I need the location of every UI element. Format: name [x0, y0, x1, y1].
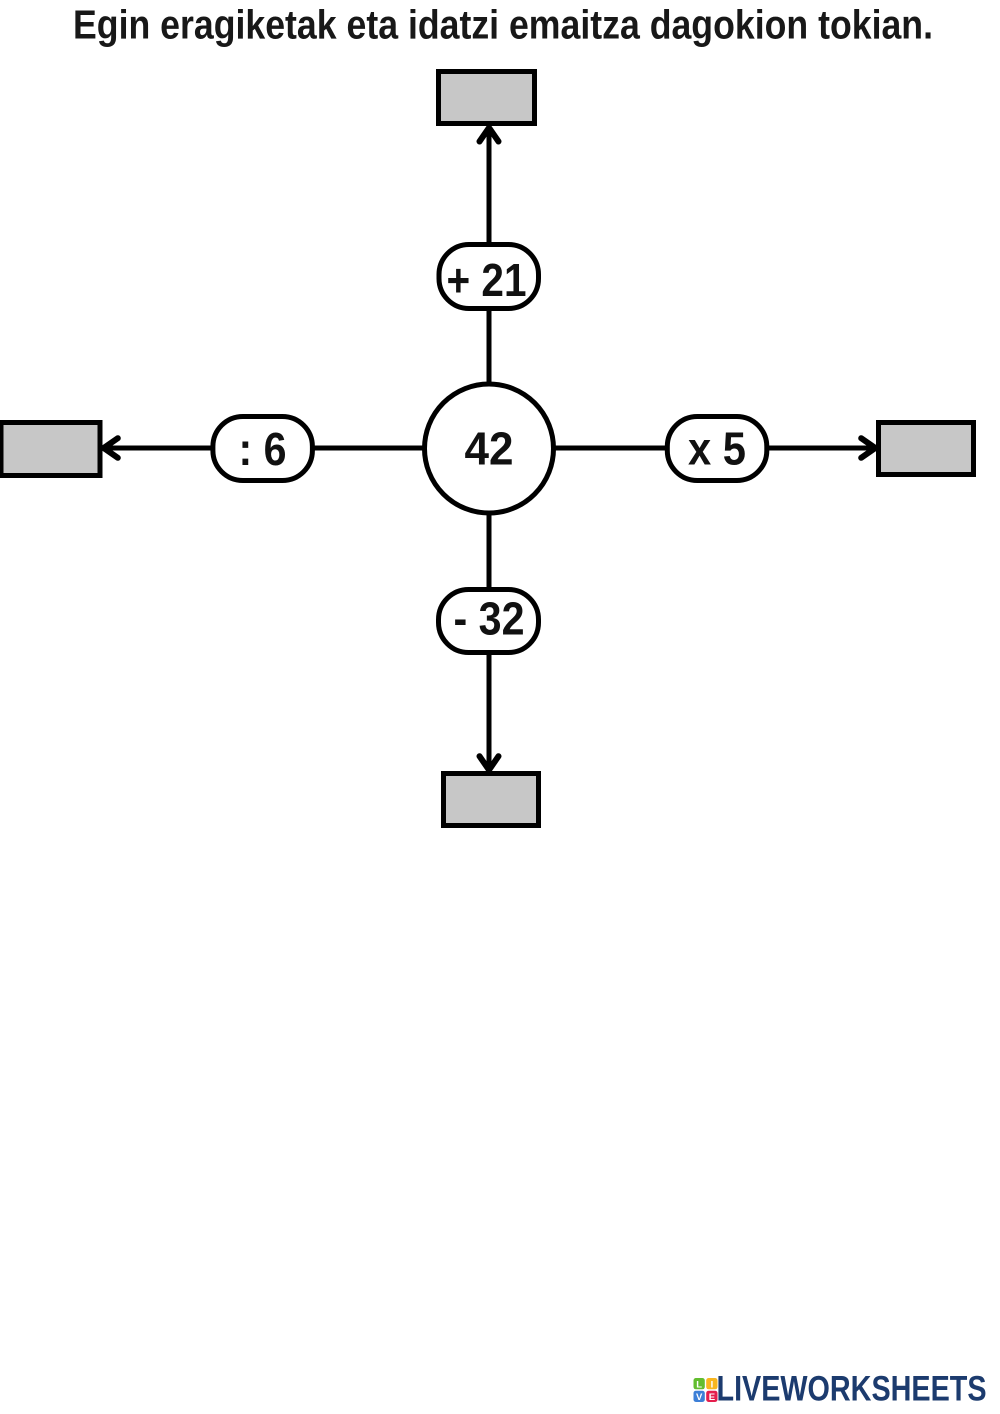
right result box: [879, 423, 974, 475]
operation pill -32: [439, 590, 539, 653]
arrowhead left: [104, 438, 118, 458]
arrowhead right: [861, 438, 875, 458]
svg-text:Egin eragiketak eta idatzi ema: Egin eragiketak eta idatzi emaitza dagok…: [73, 2, 933, 48]
operation pill :6: [213, 417, 313, 481]
wire right: circle to right arrow: [489, 446, 870, 451]
operation pill +21: [439, 245, 539, 309]
svg-text:V: V: [696, 1392, 703, 1403]
wire down: circle to bottom arrow: [487, 448, 492, 766]
wire left: circle to left arrow: [108, 446, 489, 451]
top result box: [439, 72, 535, 124]
svg-text:42: 42: [465, 423, 514, 475]
central circle 42: [425, 384, 554, 513]
svg-text:+ 21: + 21: [447, 254, 527, 306]
svg-text:x 5: x 5: [688, 423, 746, 475]
svg-text:L: L: [696, 1379, 702, 1390]
wire up: circle to top arrow: [487, 131, 492, 448]
svg-text:- 32: - 32: [454, 593, 525, 645]
svg-text:I: I: [711, 1379, 714, 1390]
svg-text:: 6: : 6: [239, 423, 287, 475]
arrowhead up: [480, 128, 499, 142]
liveworksheets logo icon: 2x2 colored squares: [694, 1378, 718, 1403]
left result box: [1, 423, 100, 476]
bottom result box: [444, 774, 539, 826]
operation pill x5: [667, 417, 767, 481]
arrowhead down: [480, 756, 499, 770]
svg-text:E: E: [709, 1392, 715, 1403]
svg-text:LIVEWORKSHEETS: LIVEWORKSHEETS: [717, 1370, 987, 1409]
